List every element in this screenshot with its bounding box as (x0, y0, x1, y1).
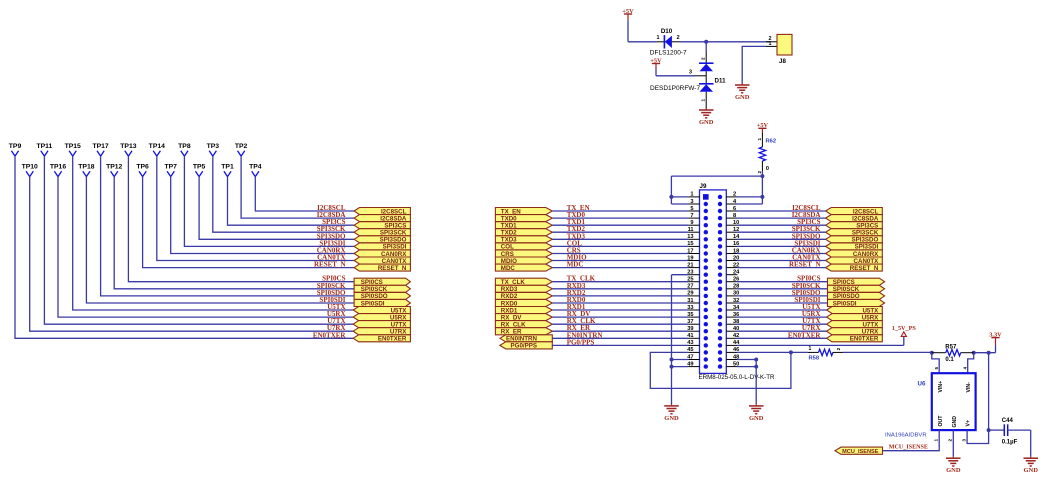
svg-text:15: 15 (687, 241, 693, 247)
svg-text:1: 1 (809, 346, 812, 352)
svg-text:TP9: TP9 (9, 143, 22, 150)
svg-text:U6: U6 (918, 380, 926, 387)
svg-text:1: 1 (769, 41, 772, 47)
svg-text:28: 28 (733, 284, 739, 290)
svg-text:GND: GND (1023, 467, 1038, 474)
svg-text:EN0TXER: EN0TXER (313, 331, 347, 339)
svg-text:TP16: TP16 (50, 164, 66, 171)
svg-text:14: 14 (733, 234, 740, 240)
svg-text:VIN-: VIN- (966, 382, 972, 393)
svg-text:R57: R57 (945, 345, 957, 351)
svg-text:2: 2 (733, 192, 736, 198)
svg-text:TP2: TP2 (235, 143, 248, 150)
svg-text:EN0TXER: EN0TXER (788, 331, 822, 339)
svg-text:TP8: TP8 (178, 143, 191, 150)
svg-text:TP4: TP4 (249, 164, 262, 171)
svg-text:TP10: TP10 (22, 164, 38, 171)
svg-text:ERM8-025-05.0-L-DV-K-TR: ERM8-025-05.0-L-DV-K-TR (699, 374, 776, 381)
svg-text:38: 38 (733, 319, 739, 325)
svg-text:TP15: TP15 (65, 143, 81, 150)
svg-text:DESD1P0RFW-7: DESD1P0RFW-7 (650, 85, 700, 92)
svg-text:43: 43 (687, 340, 693, 346)
svg-text:V+: V+ (966, 420, 972, 427)
svg-text:1: 1 (701, 99, 706, 102)
svg-text:2: 2 (836, 347, 841, 350)
svg-text:37: 37 (687, 319, 693, 325)
svg-text:39: 39 (687, 326, 693, 332)
svg-text:16: 16 (733, 241, 739, 247)
svg-text:7: 7 (690, 213, 693, 219)
svg-text:DFLS1200-7: DFLS1200-7 (650, 49, 687, 56)
svg-text:42: 42 (733, 333, 739, 339)
svg-text:R62: R62 (766, 139, 777, 145)
svg-text:OUT: OUT (938, 415, 944, 427)
svg-text:21: 21 (687, 262, 693, 268)
svg-text:22: 22 (733, 262, 739, 268)
svg-text:13: 13 (687, 234, 693, 240)
svg-text:INA196AIDBVR: INA196AIDBVR (885, 432, 927, 438)
svg-text:EN0TXER: EN0TXER (378, 336, 407, 343)
svg-text:TP14: TP14 (149, 143, 165, 150)
svg-text:24: 24 (733, 270, 740, 276)
svg-text:TP13: TP13 (120, 143, 136, 150)
svg-text:5: 5 (690, 206, 693, 212)
svg-text:35: 35 (687, 312, 693, 318)
svg-text:0: 0 (766, 166, 769, 172)
svg-text:36: 36 (733, 312, 739, 318)
svg-text:TP1: TP1 (221, 164, 234, 171)
svg-text:17: 17 (687, 248, 693, 254)
svg-text:D10: D10 (661, 28, 673, 35)
svg-text:EN0TXER: EN0TXER (850, 336, 879, 343)
svg-text:1: 1 (657, 35, 660, 41)
svg-text:12: 12 (733, 227, 739, 233)
svg-text:1: 1 (690, 192, 693, 198)
svg-text:29: 29 (687, 291, 693, 297)
svg-text:2: 2 (948, 439, 953, 442)
svg-text:0.1µF: 0.1µF (1002, 440, 1018, 446)
svg-text:TP11: TP11 (36, 143, 52, 150)
svg-text:TP3: TP3 (207, 143, 220, 150)
svg-text:R58: R58 (809, 356, 820, 362)
svg-text:0.1: 0.1 (945, 357, 954, 363)
svg-text:GND: GND (749, 415, 764, 422)
svg-text:MCU_ISENSE: MCU_ISENSE (842, 449, 879, 455)
svg-text:TP6: TP6 (136, 164, 149, 171)
svg-text:RESET_N: RESET_N (314, 261, 346, 269)
svg-text:D11: D11 (715, 77, 727, 84)
svg-text:33: 33 (687, 305, 693, 311)
svg-text:GND: GND (946, 467, 961, 474)
svg-text:8: 8 (733, 213, 736, 219)
svg-text:6: 6 (733, 206, 736, 212)
svg-text:31: 31 (687, 298, 693, 304)
svg-text:TP5: TP5 (193, 164, 206, 171)
svg-text:1: 1 (934, 439, 939, 442)
svg-text:TP17: TP17 (92, 143, 108, 150)
svg-text:34: 34 (733, 305, 740, 311)
svg-text:J8: J8 (779, 58, 786, 65)
svg-text:1: 1 (757, 138, 762, 141)
svg-text:26: 26 (733, 277, 739, 283)
svg-text:4: 4 (962, 367, 967, 370)
svg-text:10: 10 (733, 220, 739, 226)
svg-text:MDC: MDC (501, 265, 516, 272)
svg-text:3: 3 (962, 439, 967, 442)
svg-text:25: 25 (687, 277, 693, 283)
svg-text:9: 9 (690, 220, 693, 226)
svg-text:GND: GND (664, 415, 679, 422)
svg-text:20: 20 (733, 255, 739, 261)
svg-text:19: 19 (687, 255, 693, 261)
svg-text:TP12: TP12 (106, 164, 122, 171)
svg-text:C44: C44 (1002, 418, 1014, 424)
svg-text:1_5V_PS: 1_5V_PS (892, 325, 917, 332)
svg-text:40: 40 (733, 326, 739, 332)
svg-text:MCU_ISENSE: MCU_ISENSE (889, 444, 928, 450)
svg-text:2: 2 (701, 57, 706, 60)
svg-text:GND: GND (699, 119, 714, 126)
svg-text:27: 27 (687, 284, 693, 290)
svg-text:RESET_N: RESET_N (850, 265, 879, 272)
svg-text:41: 41 (687, 333, 693, 339)
svg-text:3: 3 (689, 69, 692, 75)
svg-text:11: 11 (688, 227, 694, 233)
svg-text:VIN+: VIN+ (938, 381, 944, 393)
svg-text:2: 2 (757, 171, 762, 174)
svg-text:PG0/PPS: PG0/PPS (511, 343, 537, 350)
svg-text:J9: J9 (700, 183, 707, 190)
svg-text:18: 18 (733, 248, 739, 254)
svg-text:GND: GND (952, 416, 958, 428)
svg-text:30: 30 (733, 291, 739, 297)
svg-text:2: 2 (677, 35, 680, 41)
svg-text:GND: GND (735, 94, 750, 101)
svg-text:32: 32 (733, 298, 739, 304)
svg-text:5: 5 (934, 367, 939, 370)
svg-text:3: 3 (690, 199, 693, 205)
svg-text:TP18: TP18 (78, 164, 94, 171)
svg-text:TP7: TP7 (164, 164, 177, 171)
svg-text:RESET_N: RESET_N (378, 265, 407, 272)
